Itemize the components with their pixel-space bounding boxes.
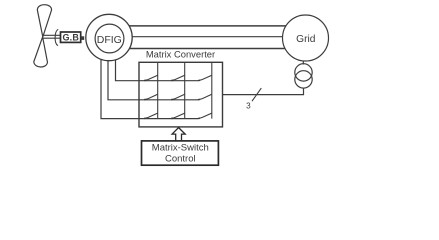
svg-text:DFIG: DFIG [97, 34, 122, 46]
svg-text:Grid: Grid [296, 34, 316, 45]
svg-text:3: 3 [246, 102, 251, 111]
svg-text:Matrix-Switch: Matrix-Switch [152, 143, 209, 154]
svg-text:G.B: G.B [62, 33, 79, 43]
svg-text:Matrix Converter: Matrix Converter [146, 49, 215, 60]
svg-text:Control: Control [165, 154, 196, 165]
